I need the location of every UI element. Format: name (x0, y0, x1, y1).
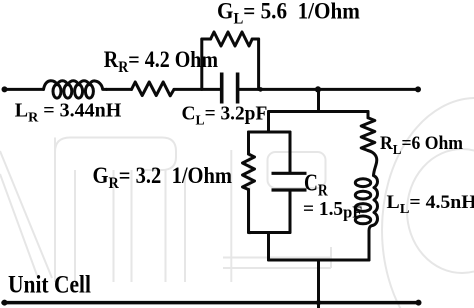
svg-text:LL= 4.5nH: LL= 4.5nH (387, 192, 474, 217)
svg-text:LR = 3.44nH: LR = 3.44nH (15, 100, 122, 126)
svg-text:RR= 4.2 Ohm: RR= 4.2 Ohm (104, 47, 218, 77)
svg-text:Unit Cell: Unit Cell (8, 271, 91, 299)
svg-text:= 1.5pF: = 1.5pF (303, 198, 362, 222)
svg-text:GL= 5.6 1/Ohm: GL= 5.6 1/Ohm (217, 0, 360, 28)
svg-text:GR= 3.2 1/Ohm: GR= 3.2 1/Ohm (93, 163, 233, 192)
svg-text:RL=6 Ohm: RL=6 Ohm (380, 132, 463, 157)
svg-text:CL= 3.2pF: CL= 3.2pF (182, 102, 268, 127)
